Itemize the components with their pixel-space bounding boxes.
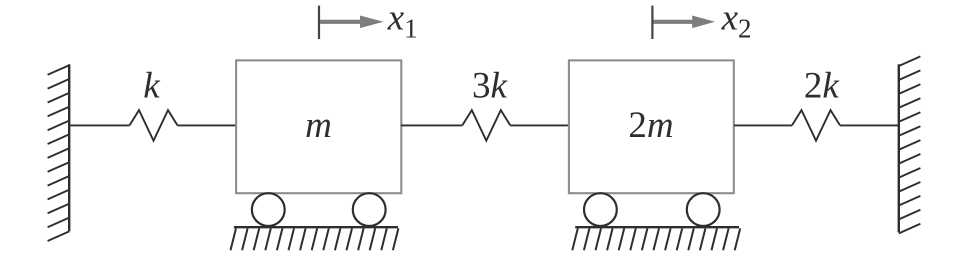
svg-text:x1: x1 [387,0,418,44]
wheel (mass m right) [353,193,386,226]
right wall [899,56,921,233]
wire mass 2m to spring 2k [734,124,792,126]
mass 2m [569,60,734,193]
ground under mass m [231,227,399,250]
left wall [48,64,70,241]
displacement reference tick x1 [318,6,320,39]
svg-text:2k: 2k [804,66,840,107]
svg-text:3k: 3k [472,66,508,107]
svg-text:2m: 2m [628,105,673,146]
wire mass m to spring 3k [401,124,462,126]
spring 2k [792,110,840,141]
displacement arrow x2 [653,16,715,29]
spring 3k [462,110,510,141]
wheel (mass 2m right) [687,193,720,226]
wire spring k to mass m [178,124,237,126]
wire wall to spring k [69,124,129,126]
svg-text:m: m [305,105,332,146]
mass m [236,60,401,193]
ground under mass 2m [572,227,740,250]
wire spring 3k to mass 2m [510,124,568,126]
wire spring 2k to right wall [840,124,899,126]
svg-text:x2: x2 [721,0,752,44]
displacement arrow x1 [320,16,383,29]
wheel (mass m left) [252,193,285,226]
displacement reference tick x2 [651,6,653,39]
wheel (mass 2m left) [584,193,617,226]
svg-text:k: k [143,66,160,107]
spring k [130,110,178,141]
